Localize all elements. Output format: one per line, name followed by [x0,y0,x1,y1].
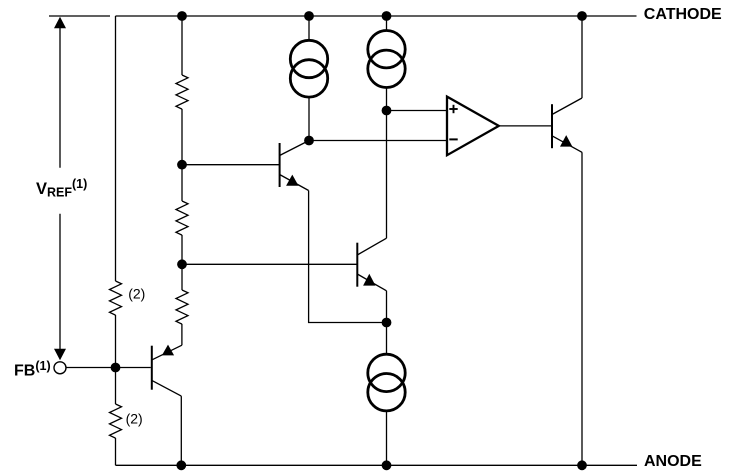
junction noninverting input node [382,106,392,116]
resistor R5 [110,404,122,438]
wire Q2 base [182,263,357,265]
wire left branch upper [115,16,117,281]
resistor R2 [176,201,188,235]
svg-text:(2): (2) [126,410,143,426]
svg-text:CATHODE: CATHODE [644,6,722,23]
svg-text:VREF(1): VREF(1) [36,177,87,200]
wire Q1 base [182,164,280,166]
svg-text:FB(1): FB(1) [14,359,51,379]
wire cathode rail [116,15,637,17]
node FB terminal circle [54,362,66,374]
resistor R4 [110,281,122,315]
junction cathode rail / I1 [304,11,314,21]
wire to op-amp noninverting input [387,110,448,112]
wire Q4 emitter to anode rail [581,152,583,465]
wire FB node to Q3 base [67,367,151,369]
wire VREF top reference tick [49,15,110,17]
junction anode rail / I3 [382,460,392,470]
junction anode rail / Q4 [577,460,587,470]
junction R2-R3 tap node [177,259,187,269]
wire anode rail [116,464,638,466]
junction anode rail / Q3 [176,460,186,470]
junction cathode rail / Q4 [577,11,587,21]
junction cathode rail / resistor chain [177,11,187,21]
current source I2 [368,31,405,88]
wire Q3 collector to anode rail [180,396,182,465]
wire noninverting node to Q2 collector [386,111,388,239]
VREF dimension arrow down [54,214,66,360]
svg-text:(2): (2) [128,286,145,302]
current source I3 [368,354,405,411]
wire op-amp output to Q4 base [499,125,552,127]
wire tail to I3 [386,323,388,355]
resistor R1 [176,75,188,109]
junction R1-R2 tap node [177,160,187,170]
junction cathode rail / I2 [382,11,392,21]
VREF dimension arrow up [54,17,66,168]
wire Q4 collector to cathode rail [581,16,583,98]
wire Q2 emitter down [386,291,388,323]
wire I2 top stub [386,16,388,31]
wire I3 to anode rail [386,412,388,466]
wire I1 to Q1 collector [308,98,310,141]
wire Q1 emitter to tail node [309,191,387,323]
junction tail node [382,318,392,328]
wire R1 to R2 [181,109,183,201]
transistor Q1 [280,141,309,191]
transistor Q3 [152,345,182,397]
resistor R3 [176,290,188,324]
transistor Q4 [552,98,582,152]
current source I1 [290,40,327,97]
wire left branch lower [115,438,117,465]
wire I2 to noninverting node [386,89,388,111]
transistor Q2 [357,238,386,291]
op-amp U1 [447,97,499,156]
wire R2 to R3 [181,235,183,290]
wire R1 top stub [181,16,183,75]
junction FB divider node [111,363,121,373]
wire I1 top stub [308,16,310,40]
wire Q1 collector to op-amp inverting input [309,140,447,142]
wire left branch middle [115,315,117,404]
junction Q1 collector node [304,136,314,146]
svg-text:ANODE: ANODE [644,453,702,470]
wire R3 to Q3 emitter [181,324,183,345]
